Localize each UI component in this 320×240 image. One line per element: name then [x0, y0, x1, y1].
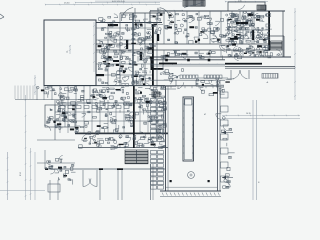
svg-text:·A·: ·A·: [266, 81, 269, 84]
svg-text:25.30: 25.30: [64, 3, 70, 5]
svg-text:12: 12: [66, 52, 68, 54]
svg-text:4.05 3.90 2.45: 4.05 3.90 2.45: [112, 1, 126, 3]
svg-text:14.35: 14.35: [246, 113, 251, 115]
svg-text:Ø: Ø: [204, 114, 206, 116]
